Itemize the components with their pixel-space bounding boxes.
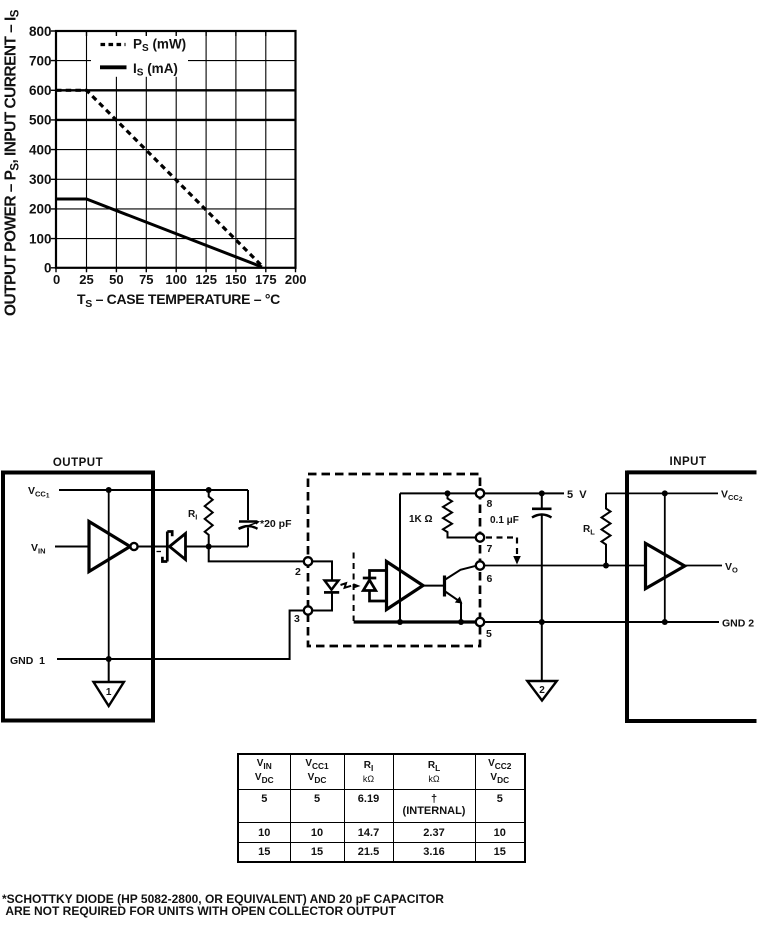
svg-text:400: 400 [29, 142, 52, 157]
resistor RI [205, 490, 213, 547]
svg-text:5: 5 [486, 628, 492, 640]
LED D2 [324, 581, 339, 593]
svg-text:OUTPUT: OUTPUT [53, 457, 103, 469]
junction VCC1/buffer [106, 487, 112, 493]
pin 8 [476, 489, 493, 510]
wire VIN [55, 546, 89, 548]
junction U3 power top [662, 490, 668, 496]
svg-text:3: 3 [294, 613, 300, 625]
wire D1 to node [186, 546, 249, 548]
schottky diode D1 [157, 532, 186, 562]
OUTPUT section box [3, 457, 153, 721]
svg-text:200: 200 [285, 272, 307, 287]
svg-text:0: 0 [53, 272, 60, 287]
capacitor C2 [532, 493, 552, 622]
transistor Q1 [423, 566, 476, 622]
svg-text:RL: RL [583, 524, 595, 537]
wire U1 output [138, 546, 166, 548]
wire U2A power [399, 493, 401, 622]
resistor RL [602, 493, 611, 565]
legend mask [91, 33, 188, 77]
svg-text:175: 175 [255, 272, 277, 287]
junction Q1 emitter/rail [458, 619, 464, 625]
junction RI bottom [206, 544, 212, 550]
svg-text:2: 2 [539, 685, 545, 696]
svg-text:0: 0 [44, 261, 52, 276]
svg-text:150: 150 [225, 272, 247, 287]
curve IS solid [56, 199, 262, 267]
INPUT section box [627, 456, 757, 723]
y-axis tick labels [29, 24, 52, 276]
chart minor gridlines [56, 31, 296, 268]
svg-text:5 V: 5 V [567, 489, 587, 501]
legend PS sample [101, 43, 126, 46]
wire U3 power [664, 493, 666, 622]
wire VCC1 rail [59, 489, 248, 491]
svg-text:700: 700 [29, 53, 52, 68]
wire U2 bottom rail [354, 620, 480, 623]
wire VCC2 rail [606, 492, 718, 494]
junction U2A/rail [397, 619, 403, 625]
wire GND1 rail [57, 611, 304, 660]
x-axis tick labels [53, 272, 307, 287]
svg-text:1K Ω: 1K Ω [409, 514, 433, 525]
svg-text:75: 75 [139, 272, 153, 287]
svg-text:100: 100 [29, 231, 52, 246]
wire LED to node3 [312, 592, 332, 610]
svg-text:8: 8 [487, 498, 493, 510]
svg-text:7: 7 [487, 543, 493, 555]
svg-text:6: 6 [487, 573, 493, 585]
chart bold gridline 600 [56, 89, 296, 91]
junction RL bottom [603, 563, 609, 569]
photodiode D3 [363, 571, 387, 602]
chart plot border [56, 31, 296, 268]
svg-text:600: 600 [29, 83, 52, 98]
svg-text:INPUT: INPUT [670, 456, 707, 468]
chart bold gridline 500 [56, 119, 296, 121]
amplifier U2A [387, 562, 424, 610]
buffer U3 [646, 543, 685, 588]
svg-text:*20 pF: *20 pF [260, 518, 292, 530]
ground 1 [94, 659, 124, 706]
enable dashed link [486, 538, 521, 565]
resistor R2 [443, 493, 476, 537]
capacitor C1 20pF [239, 490, 261, 547]
svg-text:300: 300 [29, 172, 52, 187]
wire node2 to LED [312, 561, 332, 580]
chart top ticks [87, 31, 266, 36]
wire top rail U2 [400, 492, 476, 494]
pin 6 [476, 561, 493, 585]
wire 5V rail [484, 492, 564, 494]
ground 2 [527, 622, 557, 701]
pin 5 [476, 618, 492, 640]
junction C2 bottom [539, 619, 545, 625]
node 3 [294, 606, 312, 625]
svg-text:GND 1: GND 1 [10, 655, 45, 667]
svg-text:OUTPUT POWER – PS, INPUT CURRE: OUTPUT POWER – PS, INPUT CURRENT – IS [3, 9, 22, 316]
wire U1 power [108, 490, 110, 659]
svg-text:100: 100 [165, 272, 187, 287]
node 2 [295, 557, 312, 578]
svg-text:1: 1 [106, 687, 112, 698]
junction U3 power bottom [662, 619, 668, 625]
optocoupler package U2 dashed outline [308, 474, 480, 646]
svg-text:RI: RI [188, 509, 197, 522]
svg-text:0.1 μF: 0.1 μF [490, 515, 519, 526]
wire GND2 rail [484, 621, 719, 623]
junction R2 top [445, 490, 451, 496]
svg-text:800: 800 [29, 24, 52, 39]
svg-text:VCC2: VCC2 [721, 489, 743, 504]
pin 7 [476, 533, 493, 555]
svg-text:TS – CASE TEMPERATURE – °C: TS – CASE TEMPERATURE – °C [77, 291, 280, 310]
wire U3 output [685, 565, 722, 567]
svg-text:25: 25 [79, 272, 93, 287]
svg-text:200: 200 [29, 202, 52, 217]
chart axis ticks [51, 31, 296, 272]
footnote [2, 894, 444, 917]
wire node2 jog [209, 547, 304, 562]
svg-text:125: 125 [195, 272, 217, 287]
buffer U1 [89, 522, 138, 572]
junction VCC1/RI [206, 487, 212, 493]
svg-text:PS (mW): PS (mW) [133, 37, 186, 55]
svg-text:VCC1: VCC1 [28, 485, 50, 500]
table of recommended values [237, 753, 526, 863]
light arrow [341, 583, 361, 589]
legend IS sample [100, 65, 127, 69]
svg-text:VIN: VIN [31, 542, 46, 556]
shield dashed [353, 553, 355, 622]
svg-text:GND 2: GND 2 [722, 618, 754, 630]
svg-text:VO: VO [725, 561, 738, 575]
svg-text:2: 2 [295, 566, 301, 578]
curve PS dashed [56, 90, 263, 267]
junction C2 top [539, 490, 545, 496]
svg-text:50: 50 [109, 272, 123, 287]
junction GND1/buffer [106, 656, 112, 662]
svg-text:500: 500 [29, 113, 52, 128]
wire VO line [484, 565, 645, 567]
